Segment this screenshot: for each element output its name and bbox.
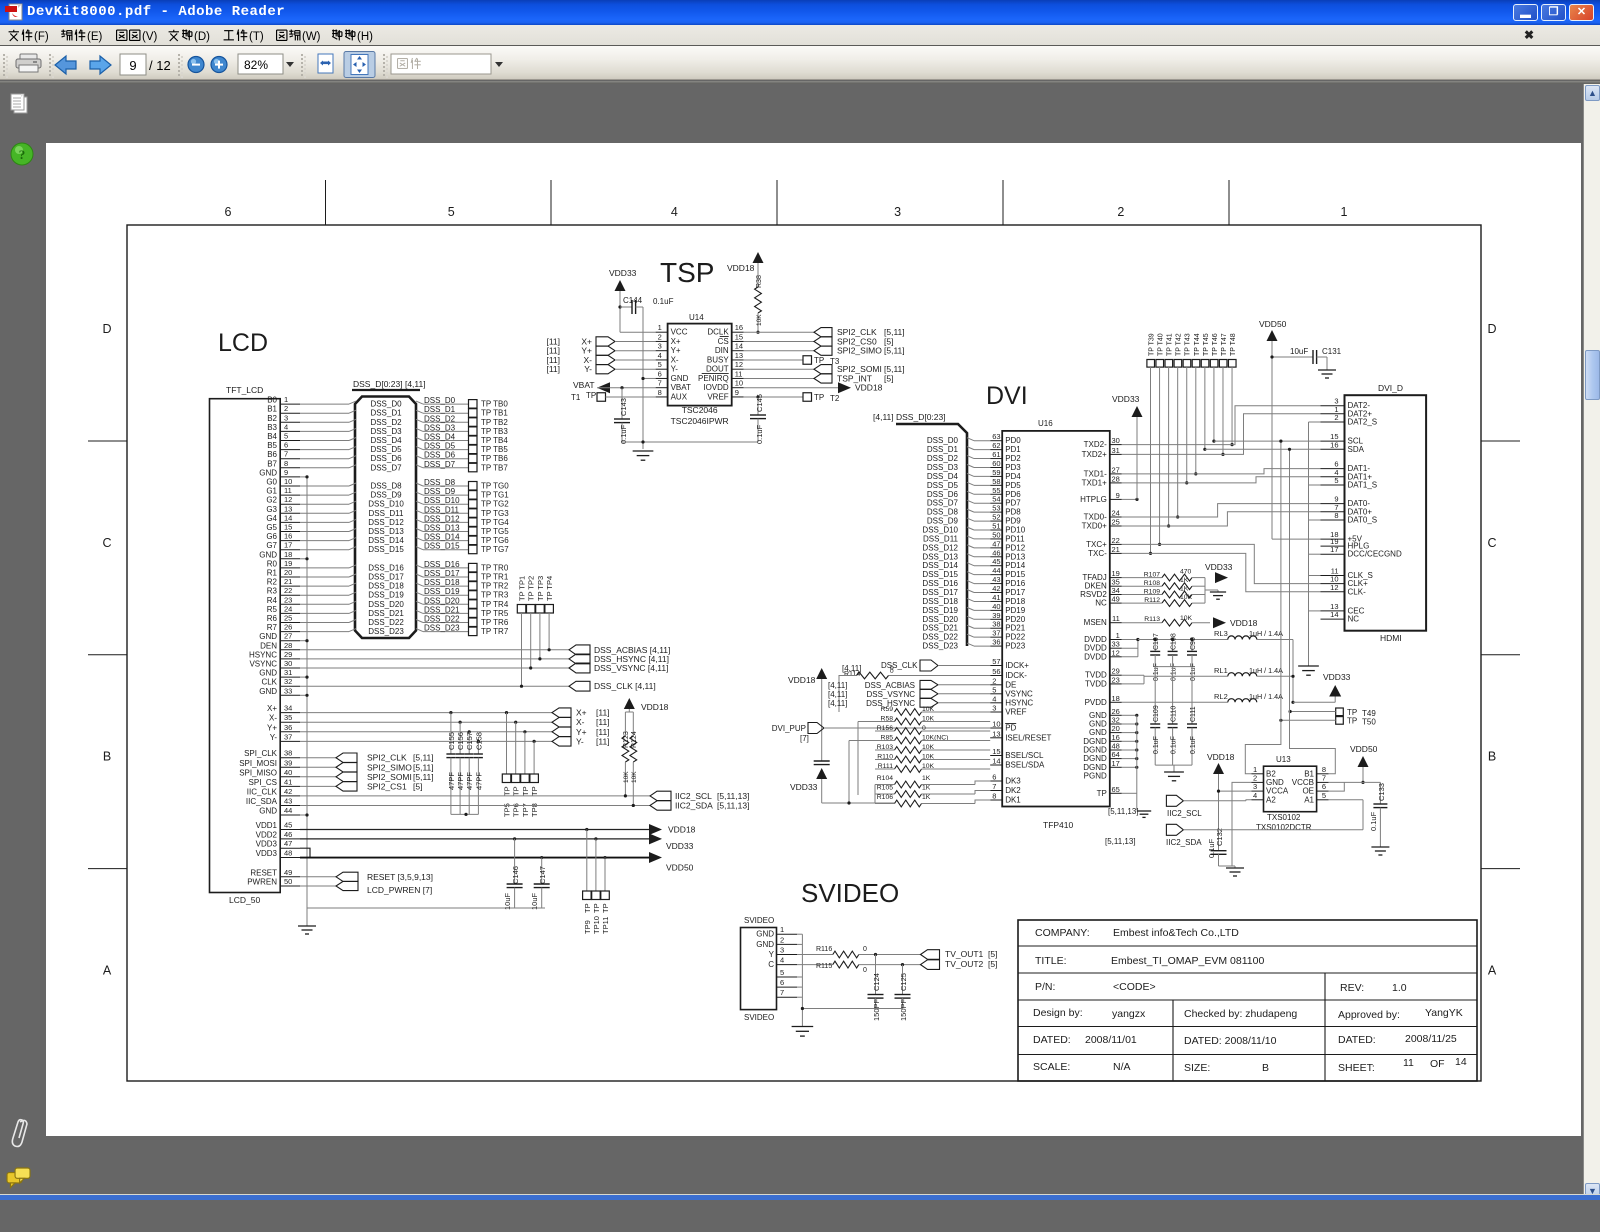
- test point TP T49 on IIC2_SDA: [1289, 708, 1377, 718]
- svg-text:51: 51: [992, 522, 1000, 531]
- svg-text:17: 17: [1330, 545, 1338, 554]
- inductor RL3 1uH/1.4A: [1214, 629, 1293, 702]
- svg-text:PD17: PD17: [1005, 588, 1026, 597]
- svg-text:12: 12: [1111, 648, 1119, 657]
- svg-text:25: 25: [1111, 518, 1119, 527]
- svg-text:[5]: [5]: [413, 781, 422, 791]
- svg-text:PD13: PD13: [1005, 552, 1026, 561]
- svg-text:7: 7: [284, 450, 288, 459]
- svg-text:DVDD: DVDD: [1084, 635, 1107, 644]
- svg-text:PD21: PD21: [1005, 624, 1026, 633]
- svg-text:2: 2: [284, 404, 288, 413]
- wire and flag SPI2_CLK from LCD pin 38: [300, 753, 434, 763]
- svg-text:3: 3: [284, 413, 288, 422]
- wire VCCA pin of U13 to VDD18: [1217, 790, 1252, 793]
- svg-text:DK1: DK1: [1005, 796, 1021, 805]
- svg-text:0: 0: [863, 946, 867, 953]
- svg-text:PD6: PD6: [1005, 490, 1021, 499]
- svg-text:TP: TP: [530, 786, 539, 796]
- svg-text:6: 6: [780, 978, 784, 987]
- svg-text:15: 15: [284, 523, 292, 532]
- svg-text:SPI2_SOMI: SPI2_SOMI: [367, 772, 412, 782]
- svg-text:0: 0: [863, 967, 867, 974]
- svg-text:1: 1: [780, 925, 784, 934]
- wire and flag LCD_PWREN from LCD pin 50: [300, 881, 432, 895]
- svg-text:C145: C145: [755, 394, 764, 412]
- svg-text:GND: GND: [259, 807, 277, 816]
- svg-text:G1: G1: [266, 487, 277, 496]
- svg-text:16: 16: [284, 532, 292, 541]
- svg-text:R106: R106: [877, 794, 893, 801]
- svg-text:DATED: 2008/11/10: DATED: 2008/11/10: [1184, 1035, 1277, 1047]
- svg-text:Y: Y: [769, 950, 775, 959]
- svg-text:GND: GND: [756, 940, 774, 949]
- svg-text:RL2: RL2: [1214, 692, 1228, 701]
- svg-text:44: 44: [284, 806, 292, 815]
- svg-text:VCCB: VCCB: [1292, 778, 1314, 787]
- svg-text:TVDD: TVDD: [1085, 679, 1107, 688]
- svg-text:4: 4: [780, 956, 784, 965]
- svg-text:5: 5: [658, 360, 662, 369]
- svg-text:24: 24: [284, 604, 292, 613]
- svg-text:G2: G2: [266, 496, 277, 505]
- svg-text:TP TB7: TP TB7: [481, 463, 508, 472]
- svg-text:2: 2: [1117, 205, 1124, 219]
- svg-text:38: 38: [284, 749, 292, 758]
- connector TFT_LCD (LCD_50): [210, 385, 301, 905]
- svg-text:VBAT: VBAT: [573, 380, 595, 390]
- svg-text:DGND: DGND: [1083, 737, 1107, 746]
- svg-text:VDD33: VDD33: [1205, 562, 1233, 572]
- test point T1 on AUX: [571, 391, 656, 402]
- svg-text:DSS_D11: DSS_D11: [369, 509, 405, 518]
- svg-text:VDD18: VDD18: [1207, 752, 1235, 762]
- svg-text:PD18: PD18: [1005, 597, 1026, 606]
- svg-text:0: 0: [890, 665, 894, 672]
- svg-text:X-: X-: [576, 717, 585, 727]
- svg-text:DSS_D8: DSS_D8: [370, 482, 402, 491]
- capacitor C124 150PF: [868, 953, 884, 1021]
- svg-text:DSS_D11: DSS_D11: [923, 534, 959, 543]
- svg-text:Embest info&Tech Co.,LTD: Embest info&Tech Co.,LTD: [1113, 927, 1239, 939]
- svg-text:B: B: [1262, 1062, 1269, 1074]
- svg-text:[5,11]: [5,11]: [413, 762, 434, 772]
- svg-text:13: 13: [735, 351, 743, 360]
- capacitors C109 C110 C111 0.1uF: [1150, 667, 1197, 781]
- svg-text:18: 18: [284, 550, 292, 559]
- wire GND pins of U16 to ground: [1122, 714, 1151, 818]
- svg-text:55: 55: [992, 486, 1000, 495]
- svg-text:R112: R112: [1144, 597, 1160, 604]
- svg-text:[5]: [5]: [988, 949, 997, 959]
- svg-text:C125: C125: [899, 973, 908, 991]
- svg-text:TP TG2: TP TG2: [481, 500, 509, 509]
- svg-text:10uF: 10uF: [1290, 347, 1308, 356]
- svg-text:DSS_D1: DSS_D1: [424, 405, 456, 414]
- svg-text:TP TB0: TP TB0: [481, 400, 508, 409]
- svg-text:9: 9: [735, 388, 739, 397]
- svg-text:TP TB1: TP TB1: [481, 409, 508, 418]
- power VBAT arrow: [573, 380, 656, 393]
- svg-text:12: 12: [284, 495, 292, 504]
- svg-text:Design by:: Design by:: [1033, 1007, 1083, 1019]
- svg-text:VDD50: VDD50: [1350, 744, 1378, 754]
- svg-text:C132: C132: [1215, 828, 1224, 846]
- svg-text:16: 16: [735, 323, 743, 332]
- section title LCD: [218, 329, 268, 357]
- svg-text:17: 17: [284, 541, 292, 550]
- svg-text:TSC2046IPWR: TSC2046IPWR: [671, 416, 729, 426]
- svg-text:0.1uF: 0.1uF: [1171, 736, 1178, 754]
- svg-text:GND: GND: [259, 468, 277, 477]
- svg-text:SPI2_CLK: SPI2_CLK: [367, 753, 407, 763]
- svg-text:0.1uF: 0.1uF: [1153, 736, 1160, 754]
- svg-text:DSS_D10: DSS_D10: [368, 500, 404, 509]
- resistor R116 0 on Y: [797, 946, 921, 958]
- svg-text:REV:: REV:: [1340, 982, 1364, 994]
- svg-text:TP TB6: TP TB6: [481, 454, 508, 463]
- svg-text:T1: T1: [571, 393, 581, 402]
- svg-text:D: D: [1487, 322, 1496, 336]
- svg-text:NC: NC: [1095, 599, 1107, 608]
- svg-text:32: 32: [284, 677, 292, 686]
- svg-text:TSP: TSP: [660, 257, 714, 288]
- svg-text:14: 14: [284, 513, 292, 522]
- svg-text:1K: 1K: [922, 794, 931, 801]
- svg-text:150PF: 150PF: [872, 998, 881, 1021]
- svg-text:15: 15: [735, 332, 743, 341]
- power VDD18 of DVI pull network: [788, 668, 827, 758]
- svg-text:B7: B7: [267, 459, 277, 468]
- svg-text:PGND: PGND: [1084, 772, 1107, 781]
- svg-text:5: 5: [448, 205, 455, 219]
- svg-text:10K: 10K: [631, 771, 638, 783]
- svg-text:DSS_D7: DSS_D7: [927, 499, 959, 508]
- svg-text:DSS_D21: DSS_D21: [922, 624, 958, 633]
- svg-text:TXD1-: TXD1-: [1084, 469, 1107, 478]
- svg-text:TXD1+: TXD1+: [1082, 478, 1107, 487]
- svg-text:2: 2: [1334, 413, 1338, 422]
- svg-text:0.1uF: 0.1uF: [1171, 663, 1178, 681]
- wire VDD50 rail from LCD pins 47/48: [300, 848, 694, 872]
- svg-text:TXD2+: TXD2+: [1082, 450, 1107, 459]
- svg-text:R3: R3: [267, 587, 278, 596]
- svg-text:13: 13: [284, 504, 292, 513]
- svg-text:LCD_PWREN [7]: LCD_PWREN [7]: [367, 885, 432, 895]
- svg-text:R2: R2: [267, 578, 278, 587]
- svg-text:C156: C156: [456, 732, 465, 750]
- svg-text:DSS_D17: DSS_D17: [424, 569, 460, 578]
- svg-text:DSS_D5: DSS_D5: [927, 481, 959, 490]
- svg-text:PD5: PD5: [1005, 481, 1021, 490]
- svg-text:CS: CS: [718, 337, 729, 346]
- svg-text:DSS_D15: DSS_D15: [922, 570, 958, 579]
- svg-text:PWREN: PWREN: [247, 878, 277, 887]
- svg-text:DSS_D[0:23]: DSS_D[0:23]: [896, 412, 946, 422]
- svg-text:B3: B3: [267, 423, 277, 432]
- capacitor C146 10uF: [503, 837, 523, 910]
- svg-text:TITLE:: TITLE:: [1035, 955, 1067, 967]
- power VDD33 tap on PVDD rail: [1323, 672, 1351, 702]
- svg-text:GND: GND: [259, 687, 277, 696]
- svg-text:C108: C108: [1171, 633, 1178, 650]
- capacitor and power VDD33 of pull network: [790, 758, 895, 803]
- svg-text:49: 49: [1111, 595, 1119, 604]
- svg-text:(T): (T): [249, 31, 264, 43]
- wires TMDS pairs from U16 to DVI_D: [1122, 406, 1321, 592]
- svg-text:TP9: TP9: [583, 920, 592, 934]
- svg-text:VCC: VCC: [671, 328, 688, 337]
- svg-text:65: 65: [1111, 785, 1119, 794]
- svg-text:DSS_D17: DSS_D17: [922, 588, 958, 597]
- svg-text:5: 5: [992, 685, 996, 694]
- svg-text:[7]: [7]: [800, 734, 809, 743]
- svg-text:BSEL/SDA: BSEL/SDA: [1005, 761, 1045, 770]
- svg-text:6: 6: [658, 369, 662, 378]
- wire and flag RESET from LCD pin 49: [300, 872, 433, 882]
- svg-text:(W): (W): [302, 31, 321, 43]
- svg-text:47PF: 47PF: [447, 772, 456, 790]
- svg-text:PD9: PD9: [1005, 517, 1021, 526]
- svg-text:13: 13: [992, 729, 1000, 738]
- svg-text:DSS_D3: DSS_D3: [424, 423, 456, 432]
- svg-text:82%: 82%: [244, 58, 268, 72]
- svg-text:R5: R5: [267, 605, 278, 614]
- svg-text:40: 40: [992, 602, 1000, 611]
- svg-text:58: 58: [992, 477, 1000, 486]
- svg-text:DSS_D4: DSS_D4: [424, 433, 456, 442]
- resistor R113 10K to VDD18: [1122, 615, 1258, 628]
- svg-text:OE: OE: [1302, 787, 1314, 796]
- svg-text:SIZE:: SIZE:: [1184, 1062, 1210, 1074]
- svg-text:C109: C109: [1153, 705, 1160, 722]
- svg-text:TP10: TP10: [592, 916, 601, 934]
- svg-text:SCALE:: SCALE:: [1033, 1061, 1070, 1073]
- svg-text:6: 6: [225, 205, 232, 219]
- svg-text:0.1uF: 0.1uF: [1190, 663, 1197, 681]
- resistors R104 R105 R106 1K on DK pins: [875, 775, 990, 807]
- svg-text:NC: NC: [1348, 615, 1360, 624]
- svg-text:DVDD: DVDD: [1084, 652, 1107, 661]
- svg-text:DAT0_S: DAT0_S: [1348, 516, 1378, 525]
- svg-text:SHEET:: SHEET:: [1338, 1062, 1375, 1074]
- svg-text:50: 50: [992, 530, 1000, 539]
- wire VDD33 rail from LCD pin 46: [300, 833, 694, 851]
- svg-text:6: 6: [1322, 782, 1326, 791]
- svg-text:PD22: PD22: [1005, 633, 1026, 642]
- svg-text:DSS_D15: DSS_D15: [368, 545, 404, 554]
- svg-text:C131: C131: [1322, 347, 1342, 356]
- svg-text:X+: X+: [267, 704, 277, 713]
- svg-text:17: 17: [1111, 759, 1119, 768]
- svg-text:DSS_D9: DSS_D9: [424, 487, 456, 496]
- svg-text:T2: T2: [830, 394, 840, 403]
- svg-text:DSS_D6: DSS_D6: [927, 490, 959, 499]
- svg-text:[11]: [11]: [596, 727, 610, 737]
- flags DSS_ACBIAS DSS_VSYNC DSS_HSYNC into U16: [828, 680, 990, 707]
- svg-text:DSS_D11: DSS_D11: [424, 505, 460, 514]
- svg-text:DVI: DVI: [986, 382, 1028, 410]
- svg-text:29: 29: [284, 650, 292, 659]
- input flags X+ Y+ X- Y- [11]: [546, 336, 655, 374]
- svg-text:TXD2-: TXD2-: [1084, 440, 1107, 449]
- svg-text:DSS_CLK [4,11]: DSS_CLK [4,11]: [594, 681, 656, 691]
- svg-text:G3: G3: [266, 505, 277, 514]
- svg-text:DSS_D15: DSS_D15: [424, 542, 460, 551]
- svg-text:VDD33: VDD33: [790, 782, 818, 792]
- svg-text:2008/11/25: 2008/11/25: [1405, 1033, 1457, 1045]
- svg-text:DGND: DGND: [1083, 763, 1107, 772]
- svg-text:U14: U14: [689, 313, 704, 322]
- svg-text:TP TR5: TP TR5: [481, 609, 509, 618]
- svg-text:47: 47: [992, 539, 1000, 548]
- svg-text:39: 39: [992, 611, 1000, 620]
- svg-text:4: 4: [658, 351, 662, 360]
- svg-text:PD1: PD1: [1005, 445, 1021, 454]
- svg-text:11: 11: [284, 486, 292, 495]
- svg-text:TP T46: TP T46: [1212, 333, 1219, 356]
- svg-text:TP TR3: TP TR3: [481, 591, 509, 600]
- svg-text:[5,11,13]: [5,11,13]: [717, 791, 749, 801]
- svg-text:7: 7: [992, 782, 996, 791]
- svg-text:TXC-: TXC-: [1088, 549, 1107, 558]
- svg-text:DSS_D16: DSS_D16: [424, 560, 460, 569]
- svg-text:47PF: 47PF: [474, 772, 483, 790]
- test points TP9-TP11 on power rails: [583, 828, 610, 934]
- capacitor C125 150PF: [895, 963, 911, 1021]
- svg-text:9: 9: [129, 58, 136, 73]
- svg-text:C: C: [102, 536, 111, 550]
- svg-text:62: 62: [992, 441, 1000, 450]
- svg-text:IDCK-: IDCK-: [1005, 671, 1027, 680]
- svg-text:[4,11]: [4,11]: [828, 699, 847, 708]
- svg-text:R0: R0: [267, 559, 278, 568]
- svg-text:TP: TP: [814, 393, 824, 402]
- svg-text:B4: B4: [267, 432, 277, 441]
- svg-text:[11]: [11]: [596, 717, 610, 727]
- svg-text:28: 28: [1111, 474, 1119, 483]
- resistor R123 10K pullup: [622, 712, 630, 798]
- svg-text:G6: G6: [266, 532, 277, 541]
- svg-text:TXD0+: TXD0+: [1082, 522, 1107, 531]
- svg-text:DSS_D21: DSS_D21: [424, 605, 460, 614]
- svg-text:DSS_D12: DSS_D12: [368, 518, 404, 527]
- svg-text:45: 45: [992, 557, 1000, 566]
- test point T2 on VREF: [744, 393, 840, 403]
- svg-text:1K: 1K: [1180, 577, 1189, 584]
- svg-text:IIC_SDA: IIC_SDA: [246, 797, 278, 806]
- svg-text:1.0: 1.0: [1392, 982, 1407, 994]
- svg-text:DSS_D7: DSS_D7: [370, 463, 402, 472]
- wires DSS_D0-23 to PD0-23: [922, 436, 990, 650]
- svg-text:10K: 10K: [1180, 594, 1193, 601]
- svg-text:VREF: VREF: [1005, 708, 1026, 717]
- svg-text:R6: R6: [267, 614, 278, 623]
- resistor R124 10K pullup: [630, 712, 638, 807]
- svg-text:DSS_D19: DSS_D19: [922, 606, 958, 615]
- svg-text:DSS_D4: DSS_D4: [927, 472, 959, 481]
- svg-text:12: 12: [735, 360, 743, 369]
- svg-text:D: D: [102, 322, 111, 336]
- svg-text:DSS_D1: DSS_D1: [927, 445, 959, 454]
- svg-text:(E): (E): [87, 31, 103, 43]
- svg-text:TP TG0: TP TG0: [481, 482, 509, 491]
- svg-text:TXD0-: TXD0-: [1084, 513, 1107, 522]
- svg-text:1K: 1K: [1180, 586, 1189, 593]
- svg-text:470: 470: [1180, 569, 1192, 576]
- svg-text:(H): (H): [357, 31, 373, 43]
- svg-text:DOUT: DOUT: [706, 365, 729, 374]
- svg-text:TP T45: TP T45: [1203, 333, 1210, 356]
- svg-text:Y+: Y+: [671, 346, 681, 355]
- svg-text:C124: C124: [872, 973, 881, 991]
- svg-text:VSYNC: VSYNC: [249, 660, 277, 669]
- svg-text:3: 3: [658, 342, 662, 351]
- svg-text:TP: TP: [814, 356, 824, 365]
- svg-text:DSS_D19: DSS_D19: [368, 591, 404, 600]
- svg-text:11: 11: [735, 369, 743, 378]
- svg-text:T50: T50: [1362, 718, 1376, 727]
- svg-text:RL3: RL3: [1214, 629, 1228, 638]
- svg-text:15: 15: [992, 747, 1000, 756]
- svg-text:G7: G7: [266, 541, 277, 550]
- svg-text:5: 5: [780, 968, 784, 977]
- svg-text:GND: GND: [671, 374, 689, 383]
- svg-text:IOVDD: IOVDD: [703, 383, 729, 392]
- svg-text:VSYNC: VSYNC: [1005, 689, 1033, 698]
- flag TV_OUT1 [5]: [921, 949, 998, 959]
- svg-text:53: 53: [992, 504, 1000, 513]
- svg-text:DSS_D9: DSS_D9: [927, 517, 959, 526]
- svg-text:B2: B2: [267, 414, 277, 423]
- wire and flag SPI2_SIMO from LCD pin 39: [300, 762, 434, 772]
- svg-text:DSS_D6: DSS_D6: [370, 454, 402, 463]
- svg-text:X+: X+: [576, 708, 587, 718]
- svg-text:PD20: PD20: [1005, 615, 1026, 624]
- capacitors C107 C108 C90 0.1uF: [1150, 633, 1197, 681]
- svg-text:B0: B0: [267, 396, 277, 405]
- svg-text:IIC_CLK: IIC_CLK: [247, 787, 278, 796]
- svg-text:VDD18: VDD18: [641, 702, 669, 712]
- svg-text:GND: GND: [259, 669, 277, 678]
- svg-text:TP TR6: TP TR6: [481, 618, 509, 627]
- svg-text:GND: GND: [1089, 711, 1107, 720]
- svg-text:2008/11/01: 2008/11/01: [1085, 1034, 1137, 1046]
- svg-text:TP TG3: TP TG3: [481, 509, 509, 518]
- svg-text:COMPANY:: COMPANY:: [1035, 927, 1090, 939]
- svg-text:4: 4: [671, 205, 678, 219]
- svg-text:TP T40: TP T40: [1158, 333, 1165, 356]
- svg-text:35: 35: [284, 713, 292, 722]
- svg-text:26: 26: [284, 623, 292, 632]
- svg-text:C144: C144: [623, 296, 643, 305]
- svg-text:5: 5: [1322, 791, 1326, 800]
- svg-text:14: 14: [1455, 1056, 1467, 1068]
- svg-text:38: 38: [992, 620, 1000, 629]
- power VDD33 for TSP: [609, 268, 656, 332]
- svg-text:R113: R113: [1144, 616, 1160, 623]
- svg-text:DSS_D0: DSS_D0: [370, 400, 402, 409]
- svg-text:20: 20: [1111, 724, 1119, 733]
- svg-text:11: 11: [1403, 1057, 1414, 1069]
- svg-text:VREF: VREF: [707, 392, 728, 401]
- svg-text:9: 9: [1116, 491, 1120, 500]
- svg-text:BUSY: BUSY: [707, 355, 729, 364]
- svg-text:TP TP4: TP TP4: [545, 576, 554, 601]
- svg-text:DAT2_S: DAT2_S: [1348, 418, 1378, 427]
- svg-text:52: 52: [992, 513, 1000, 522]
- svg-text:DSS_D12: DSS_D12: [424, 514, 460, 523]
